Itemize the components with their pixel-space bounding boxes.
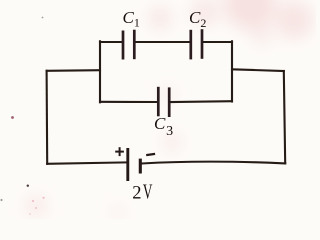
battery V1 short negative plate [139, 159, 142, 174]
svg-text:V: V [143, 180, 153, 204]
capacitor C3 [158, 87, 169, 117]
capacitor C2 [191, 29, 202, 59]
wire outer-left vertical [46, 71, 49, 164]
wire right stub node to outer loop [232, 69, 284, 71]
wire middle branch left of C3 [100, 101, 157, 103]
wire left stub node to outer loop [47, 69, 100, 72]
wire bottom right of battery [142, 162, 285, 164]
wire inner-right vertical [231, 41, 233, 101]
wire outer-right vertical [284, 71, 285, 163]
wire top branch left of C1 [100, 41, 122, 43]
battery V1 long positive plate [126, 148, 129, 181]
capacitor C1 [123, 30, 134, 60]
wire top branch right of C2 [203, 41, 232, 43]
battery minus sign [146, 154, 155, 155]
wire inner-left vertical [99, 41, 101, 102]
battery plus sign [115, 147, 124, 156]
svg-text:2: 2 [132, 183, 141, 203]
wire between C1 and C2 [136, 41, 190, 43]
wire bottom left of battery [47, 162, 126, 163]
wire middle branch right of C3 [171, 100, 233, 103]
